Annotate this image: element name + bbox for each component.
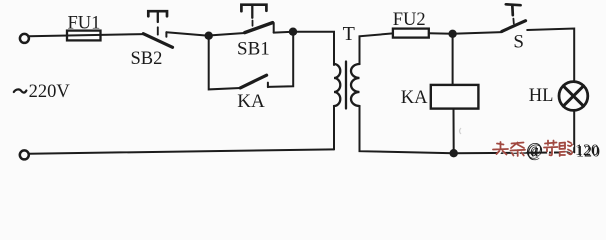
- wire primary bottom to rail: [333, 106, 335, 149]
- watermark 头条@节能120 white emboss layer: [494, 142, 573, 158]
- wire node A to SB1: [209, 33, 245, 36]
- switch S actuator cap: [506, 4, 521, 15]
- SB2 actuator stem: [157, 11, 159, 22]
- wire lamp bottom to rail: [573, 110, 575, 152]
- svg-text:SB1: SB1: [237, 38, 270, 59]
- node B junction dot: [289, 28, 297, 36]
- tilde of ~220V: [14, 89, 27, 92]
- transformer core: [345, 62, 347, 109]
- relay coil KA branch wire top: [452, 34, 454, 85]
- S stem dashed link: [512, 19, 514, 24]
- fuse FU1: [67, 31, 101, 41]
- wire node B to transformer primary corner: [293, 32, 334, 65]
- node A junction dot: [205, 32, 213, 40]
- svg-text:KA: KA: [237, 91, 265, 112]
- wire secondary top corner to FU2: [360, 33, 393, 64]
- hanzi 节: [544, 141, 558, 156]
- wire node C to switch S: [453, 32, 502, 34]
- svg-text:T: T: [343, 23, 355, 45]
- watermark 头条@节能120: [493, 141, 572, 157]
- svg-text:@: @: [526, 139, 542, 159]
- terminal lower-left: [20, 150, 29, 159]
- bottom-right rail: [360, 106, 575, 153]
- bottom-left rail: [29, 149, 334, 153]
- transformer secondary winding: [351, 64, 360, 106]
- pushbutton SB1 (NO) cap: [241, 5, 266, 12]
- KA contact branch: left vertical from node A: [209, 36, 241, 90]
- svg-text:220V: 220V: [29, 82, 71, 102]
- node D junction dot: [450, 149, 458, 157]
- svg-text:SB2: SB2: [131, 49, 163, 69]
- switch S blade: [502, 21, 526, 32]
- svg-text:FU1: FU1: [68, 13, 101, 33]
- SB1 actuator stem: [251, 5, 253, 18]
- wire coil bottom to node D: [453, 109, 455, 154]
- hanzi 能: [560, 142, 573, 157]
- fuse FU2: [393, 29, 429, 38]
- relay contact KA blade: [240, 75, 266, 88]
- node C junction dot: [448, 30, 456, 38]
- pushbutton SB2 (NC) cap: [148, 11, 167, 16]
- wire KA contact to node B riser: [268, 32, 293, 87]
- transformer T primary winding: [334, 64, 340, 106]
- svg-text:120: 120: [575, 142, 599, 159]
- lamp HL cross: [563, 86, 583, 106]
- wire S to top-right corner and down to lamp: [527, 29, 574, 82]
- wire top-left rail: terminal to SB2: [29, 34, 144, 36]
- terminal upper-left: [20, 34, 29, 43]
- SB1 stem dashed link: [252, 21, 254, 26]
- SB1 right contact tick: [273, 23, 275, 33]
- svg-text:S: S: [513, 31, 524, 52]
- hanzi 条: [511, 143, 526, 157]
- SB2 blade: [143, 34, 172, 48]
- SB2 stem dashed link: [157, 27, 159, 34]
- wire SB2 to node A: [166, 32, 208, 35]
- svg-text:KA: KA: [401, 88, 428, 108]
- wire FU2 to node C: [429, 32, 453, 35]
- svg-text:HL: HL: [529, 86, 554, 106]
- KA contact right tick: [267, 83, 269, 88]
- lamp HL circle: [559, 82, 588, 111]
- svg-text:FU2: FU2: [393, 10, 426, 30]
- SB2 right contact stub: [165, 32, 167, 37]
- hanzi 头: [493, 142, 508, 155]
- wire SB1 to node B: [274, 31, 293, 34]
- faint scan smudge: [460, 128, 462, 134]
- relay coil KA rectangle: [431, 85, 479, 109]
- SB1 blade: [245, 23, 273, 33]
